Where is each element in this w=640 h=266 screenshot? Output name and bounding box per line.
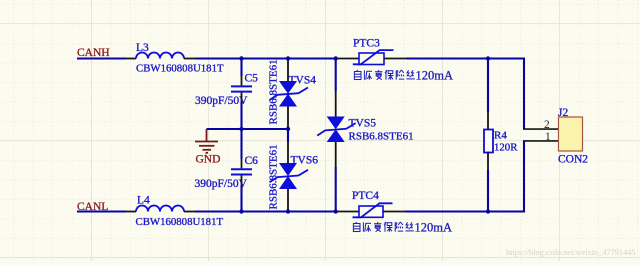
svg-text:RSB6.8STE61: RSB6.8STE61: [349, 130, 414, 142]
svg-text:120R: 120R: [494, 141, 518, 153]
svg-text:390pF/50V: 390pF/50V: [195, 95, 248, 107]
pin PTC3.2: [384, 58, 407, 60]
tvs TVS5: [327, 117, 345, 143]
pin J2.2: [523, 128, 559, 130]
wire C6 to CANL: [240, 186, 242, 212]
tvs TVS4: [279, 81, 297, 107]
svg-text:R4: R4: [494, 130, 507, 142]
wire mid GND rail: [207, 128, 289, 130]
pin L3.1: [126, 58, 136, 60]
wire R4 top: [487, 59, 489, 113]
svg-text:https://blog.csdn.net/weixin_4: https://blog.csdn.net/weixin_47791445: [506, 248, 636, 257]
wire CANL stub: [77, 210, 126, 212]
capacitor C6: [231, 169, 252, 174]
wire top PTC3 to J2 corner: [407, 59, 525, 130]
pin TVS5.2: [335, 142, 337, 167]
char bao: [385, 70, 393, 80]
svg-text:1: 1: [545, 131, 551, 143]
svg-text:CANH: CANH: [77, 47, 110, 59]
svg-text:C5: C5: [245, 73, 259, 85]
pin R4.1: [487, 112, 489, 130]
pin PTC3.1: [337, 58, 359, 60]
tvs TVS6: [279, 163, 297, 189]
pin TVS6.2: [287, 189, 289, 212]
wire TVS5 bottom: [335, 167, 337, 212]
pin TVS6.1: [287, 142, 289, 163]
label fuse comment PTC4: [353, 222, 413, 232]
svg-text:L4: L4: [137, 195, 150, 207]
inductor L4: [136, 206, 184, 212]
svg-text:RSB6.8STE61: RSB6.8STE61: [268, 144, 280, 209]
pin PTC4.1: [337, 211, 359, 213]
svg-text:GND: GND: [196, 154, 221, 166]
svg-text:PTC3: PTC3: [353, 38, 380, 50]
svg-text:J2: J2: [558, 107, 568, 119]
svg-text:120mA: 120mA: [416, 69, 454, 83]
pin C6.2: [241, 176, 243, 186]
pin TVS4.2: [287, 107, 289, 128]
ground GND: [195, 129, 218, 153]
fuse PTC3: [353, 50, 394, 64]
pin C5.1: [241, 76, 243, 85]
wire C5 top: [240, 59, 242, 77]
char hui: [364, 70, 372, 79]
pin J2.1: [523, 140, 559, 142]
svg-text:C6: C6: [245, 155, 259, 167]
resistor R4: [484, 130, 493, 153]
minor grid generated below: [13, 0, 15, 261]
inductor L3: [136, 53, 184, 59]
pin L4.1: [126, 211, 136, 213]
wire C6 top: [240, 129, 242, 159]
wire bottom L4 to PTC4: [195, 210, 337, 212]
pin PTC4.2: [383, 211, 405, 213]
wire CANH stub: [77, 57, 126, 59]
wire C5 to mid: [240, 102, 242, 129]
wire R4 bottom: [487, 170, 489, 212]
capacitor C5: [231, 86, 252, 91]
char fu: [375, 70, 382, 80]
svg-text:120mA: 120mA: [415, 220, 453, 234]
svg-text:CBW160808U181T: CBW160808U181T: [136, 216, 224, 228]
pin C5.2: [241, 93, 243, 102]
pin C6.1: [241, 159, 243, 169]
pin L3.2: [184, 58, 195, 60]
svg-text:L3: L3: [136, 42, 149, 54]
char zi: [354, 70, 361, 80]
junction dots: [239, 56, 490, 213]
pin L4.2: [184, 211, 195, 213]
svg-text:RSB6.8STE61: RSB6.8STE61: [268, 59, 280, 124]
fuse PTC4: [353, 203, 393, 217]
svg-text:PTC4: PTC4: [352, 190, 379, 202]
wire bottom J2 corner: [407, 141, 525, 212]
char si: [406, 70, 414, 79]
svg-text:390pF/50V: 390pF/50V: [195, 178, 248, 190]
pin TVS5.1: [335, 91, 337, 117]
wire bottom PTC4 to R4: [405, 210, 524, 212]
pin TVS4.1: [287, 59, 289, 82]
char xian: [396, 70, 404, 80]
connector J2: [559, 117, 583, 151]
svg-text:CON2: CON2: [558, 154, 588, 166]
svg-text:CBW160808U181T: CBW160808U181T: [136, 63, 224, 75]
wire TVS5 top: [335, 59, 337, 92]
svg-text:TVS6: TVS6: [291, 155, 319, 167]
wire top L3 to PTC3: [195, 57, 337, 59]
label fuse comment PTC3: [354, 70, 414, 80]
pin R4.2: [487, 153, 489, 171]
svg-text:TVS4: TVS4: [289, 75, 317, 87]
svg-text:TVS5: TVS5: [349, 117, 377, 129]
wire TVS4-TVS6: [287, 127, 289, 142]
svg-text:2: 2: [544, 119, 550, 131]
svg-text:CANL: CANL: [77, 201, 108, 213]
